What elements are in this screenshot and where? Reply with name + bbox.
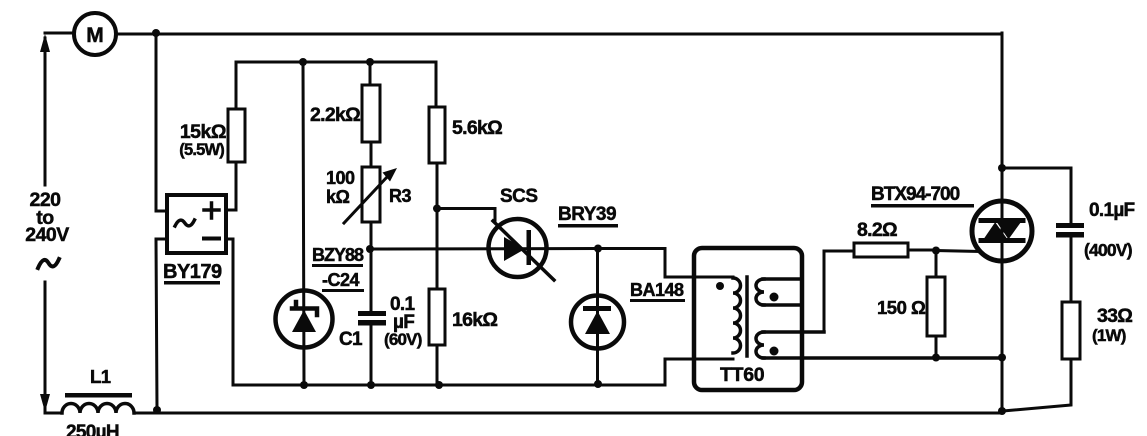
- wire: 150 ohm bottom: [935, 336, 938, 357]
- svg-text:240V: 240V: [25, 224, 69, 246]
- label BTX94-700: [871, 184, 974, 208]
- motor M1: [74, 13, 116, 55]
- svg-text:M: M: [86, 24, 104, 47]
- svg-text:TT60: TT60: [720, 364, 765, 386]
- label 220 to 240V: [25, 189, 69, 246]
- wire: R3 bottom to node: [370, 222, 373, 249]
- node: BA148 bottom junction: [594, 380, 602, 388]
- resistor R7 33 ohm: [1062, 302, 1080, 359]
- capacitor C2 0.1uF: [1056, 223, 1084, 238]
- bridge rectifier U1 BY179 box: [167, 195, 226, 253]
- transformer secondary bottom winding: [756, 332, 1002, 358]
- node: secondary top polarity dot: [770, 293, 779, 302]
- node: R3/C1/SCS junction: [366, 245, 374, 253]
- resistor R1 2.2k: [362, 85, 380, 142]
- wire: bridge + to 15k: [226, 162, 236, 210]
- wire: secondary to 8.2 ohm: [824, 251, 854, 332]
- label BA148: [630, 280, 685, 302]
- resistor R5 8.2 ohm: [854, 243, 908, 257]
- wire: SCS anode wire: [370, 247, 598, 251]
- svg-text:2.2kΩ: 2.2kΩ: [310, 104, 360, 126]
- node: 16k bottom junction: [435, 381, 443, 389]
- capacitor C1: [358, 311, 386, 326]
- wire: BA148 drop: [596, 249, 599, 385]
- wire: cap to 33 ohm: [1070, 237, 1073, 302]
- svg-text:BZY88: BZY88: [312, 245, 364, 265]
- node: zener bottom junction: [300, 381, 308, 389]
- svg-text:150 Ω: 150 Ω: [877, 297, 926, 318]
- wire: zener branch: [303, 62, 304, 385]
- svg-text:(400V): (400V): [1084, 240, 1132, 260]
- svg-text:(1W): (1W): [1092, 326, 1126, 345]
- svg-text:BRY39: BRY39: [558, 204, 616, 225]
- wire: C1 drop: [370, 249, 373, 311]
- inductor L1: [62, 404, 134, 413]
- diode D2 BA148: [571, 296, 624, 349]
- svg-text:BY179: BY179: [163, 261, 222, 283]
- svg-text:BA148: BA148: [630, 280, 684, 300]
- wire: 2.2k drop: [369, 62, 372, 85]
- svg-text:15kΩ: 15kΩ: [180, 121, 226, 143]
- node: triac bus junction: [998, 407, 1006, 415]
- svg-text:0.1µF: 0.1µF: [1089, 200, 1135, 221]
- node: zener top junction: [299, 58, 307, 66]
- svg-text:100: 100: [326, 168, 355, 188]
- wire: 15k top to second bus: [236, 62, 436, 109]
- label 100k: [326, 168, 355, 207]
- label + output: [204, 203, 219, 218]
- wire: to transformer primary top: [598, 249, 733, 278]
- node: cap branch junction: [998, 164, 1006, 172]
- wire: 33 ohm bottom to bus: [1003, 359, 1071, 411]
- label 0.1uF 400V: [1084, 200, 1135, 260]
- wire: 16k bottom: [436, 345, 439, 385]
- resistor R-15k: [228, 109, 245, 162]
- node: secondary bottom polarity dot: [770, 347, 779, 356]
- svg-text:16kΩ: 16kΩ: [452, 309, 497, 331]
- potentiometer R3 100k: [344, 167, 397, 223]
- node: bottom-left junction: [153, 406, 161, 414]
- svg-text:(60V): (60V): [384, 330, 422, 349]
- wire: 5.6k to 16k: [436, 163, 439, 289]
- node: BA148 top junction: [594, 245, 602, 253]
- svg-text:250µH: 250µH: [66, 422, 119, 436]
- svg-text:33Ω: 33Ω: [1097, 305, 1132, 327]
- node: C1 bottom junction: [367, 381, 375, 389]
- wire: bottom bus: [45, 412, 1002, 415]
- wire: junction to bridge input: [156, 33, 167, 211]
- svg-text:L1: L1: [90, 366, 111, 387]
- wire: snubber branch: [1002, 168, 1071, 223]
- node: 150 ohm top junction: [932, 247, 940, 255]
- node: gate branch junction: [433, 205, 441, 213]
- label ~ input: [175, 220, 195, 226]
- svg-text:BTX94-700: BTX94-700: [871, 184, 960, 205]
- resistor R6 150 ohm: [927, 277, 945, 336]
- transformer T1 box: [694, 248, 802, 390]
- wire: bridge ac2 to inner bus: [226, 239, 665, 385]
- wire: bridge - output down: [156, 239, 167, 409]
- SCS Q1 BRY39: [489, 219, 555, 280]
- label BRY39: [558, 204, 618, 228]
- svg-text:kΩ: kΩ: [326, 187, 350, 207]
- resistor R4 16k: [429, 289, 445, 345]
- transformer core: [745, 277, 749, 356]
- wire: 2.2k to R3: [370, 142, 373, 167]
- node: top-left junction: [152, 29, 160, 37]
- transformer secondary top winding: [756, 279, 799, 305]
- node: 150 ohm bottom junction: [932, 354, 940, 362]
- triac Q2 BTX94-700: [972, 201, 1032, 261]
- zener D1 BZY88-C24: [276, 291, 333, 348]
- label BY179: [163, 261, 222, 285]
- node: primary polarity dot: [716, 282, 724, 290]
- svg-text:C1: C1: [339, 329, 363, 350]
- label 15k: [179, 121, 226, 159]
- wire: triac vertical: [1001, 33, 1004, 412]
- resistor R2 5.6k: [429, 107, 445, 163]
- wire top bus: [45, 33, 1002, 34]
- svg-text:(5.5W): (5.5W): [179, 141, 224, 159]
- svg-text:8.2Ω: 8.2Ω: [857, 219, 897, 241]
- svg-text:5.6kΩ: 5.6kΩ: [452, 117, 502, 139]
- transformer primary winding: [733, 278, 741, 353]
- wire: mains line with arrows: [44, 38, 47, 410]
- label L1: [65, 366, 132, 398]
- label 0.1uF 60V: [384, 294, 422, 349]
- wire: SCS gate wire: [437, 209, 495, 222]
- wire: 8.2 to gate node: [908, 249, 936, 252]
- node: triac bottom junction: [998, 354, 1006, 362]
- wire: triac gate: [936, 251, 979, 252]
- svg-text:SCS: SCS: [500, 186, 538, 207]
- svg-text:R3: R3: [389, 186, 411, 206]
- svg-text:-C24: -C24: [322, 270, 360, 290]
- wire: C1 bottom: [370, 325, 373, 385]
- label ac tilde: [38, 259, 59, 268]
- wire: inner bus to primary bottom: [665, 359, 733, 385]
- label - output: [204, 237, 219, 241]
- label BZY88 -C24: [312, 245, 364, 292]
- wire: 5.6k drop from bus: [435, 62, 438, 107]
- label 33 ohm 1W: [1092, 305, 1132, 345]
- node: 2.2k top junction: [366, 58, 374, 66]
- wire: 150 ohm drop: [935, 251, 938, 278]
